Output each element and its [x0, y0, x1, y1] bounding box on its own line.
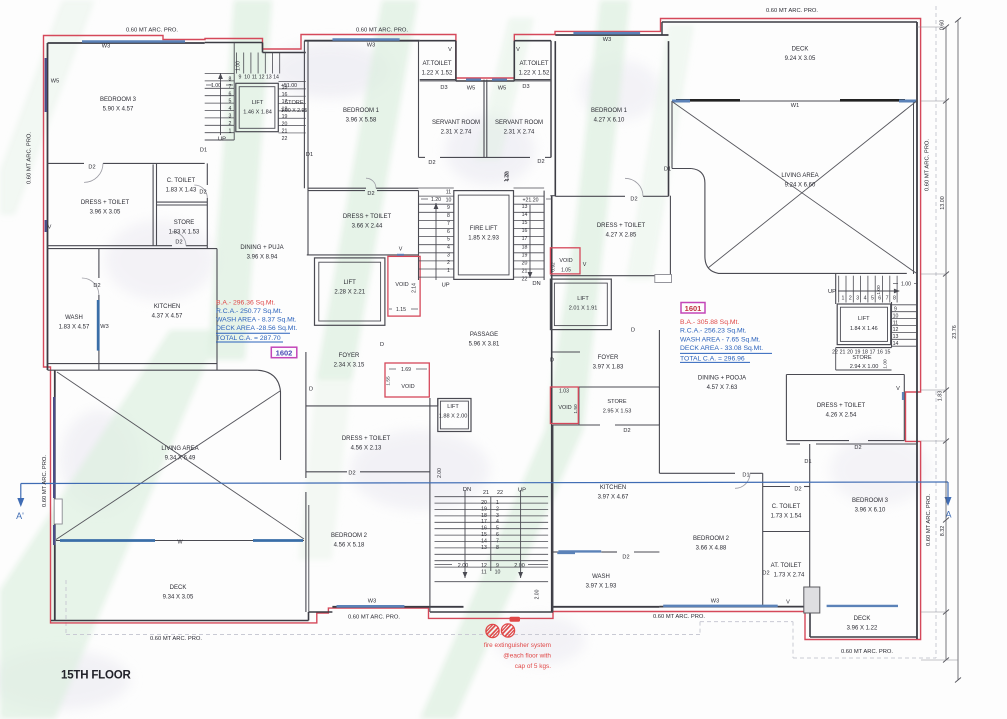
svg-text:19: 19 [481, 506, 487, 512]
svg-text:13: 13 [893, 334, 899, 340]
svg-text:2.00: 2.00 [534, 589, 540, 599]
svg-text:V: V [516, 47, 520, 53]
svg-text:W3: W3 [711, 599, 719, 605]
svg-text:STORE: STORE [852, 355, 871, 361]
svg-text:1.05: 1.05 [561, 268, 571, 274]
svg-text:5.90 X 4.57: 5.90 X 4.57 [103, 107, 134, 113]
svg-text:DN: DN [532, 281, 540, 287]
svg-text:2.00: 2.00 [437, 468, 443, 478]
svg-text:1.73 X 1.54: 1.73 X 1.54 [771, 514, 802, 520]
void 1.69 left bottom [385, 363, 429, 397]
svg-text:UP: UP [218, 137, 226, 143]
svg-text:9.34 X 6.49: 9.34 X 6.49 [165, 456, 196, 462]
svg-text:23.76: 23.76 [952, 325, 958, 339]
svg-text:6: 6 [447, 229, 450, 235]
svg-text:13: 13 [481, 545, 487, 551]
fire lift [454, 191, 514, 280]
svg-text:2.14: 2.14 [412, 283, 418, 293]
svg-text:0.60 MT ARC. PRO.: 0.60 MT ARC. PRO. [27, 132, 33, 184]
svg-text:21: 21 [522, 268, 528, 274]
svg-text:@each floor with: @each floor with [503, 653, 551, 660]
svg-text:4.56 X 2.13: 4.56 X 2.13 [351, 446, 382, 452]
svg-text:0.60 MT ARC. PRO.: 0.60 MT ARC. PRO. [126, 28, 178, 34]
svg-text:D3: D3 [522, 84, 529, 90]
svg-text:TOTAL C.A. = 296.96: TOTAL C.A. = 296.96 [680, 355, 745, 362]
svg-text:STORE: STORE [284, 100, 303, 106]
svg-text:SERVANT ROOM: SERVANT ROOM [432, 120, 480, 126]
door swing arcs [84, 163, 103, 182]
svg-text:15: 15 [481, 532, 487, 538]
svg-text:1.69: 1.69 [401, 367, 411, 373]
svg-text:2.34 X 3.15: 2.34 X 3.15 [334, 363, 365, 369]
svg-text:W3: W3 [603, 37, 611, 43]
svg-text:D: D [380, 342, 384, 348]
svg-text:19: 19 [282, 114, 288, 120]
svg-text:4.27 X 6.10: 4.27 X 6.10 [594, 118, 625, 124]
svg-text:21: 21 [840, 350, 846, 356]
svg-text:10: 10 [244, 75, 250, 81]
svg-text:17: 17 [522, 236, 528, 242]
svg-text:D2: D2 [622, 555, 629, 561]
svg-text:D2: D2 [175, 240, 182, 246]
svg-text:4.37 X 4.57: 4.37 X 4.57 [152, 314, 183, 320]
exterior walls left unit [48, 42, 205, 44]
svg-text:TOTAL C.A. = 287.70: TOTAL C.A. = 287.70 [216, 335, 281, 342]
stair top-left treads [205, 73, 235, 75]
svg-text:0.60 MT ARC. PRO.: 0.60 MT ARC. PRO. [926, 494, 932, 546]
lift 2.28x2.21 left [315, 258, 385, 325]
svg-text:1.88 X 2.00: 1.88 X 2.00 [439, 414, 468, 420]
svg-text:W3: W3 [367, 43, 375, 49]
svg-text:LIFT: LIFT [577, 296, 589, 302]
svg-text:8.32: 8.32 [940, 526, 946, 537]
svg-text:22: 22 [497, 490, 503, 496]
svg-text:3: 3 [229, 114, 232, 120]
svg-text:5: 5 [496, 526, 499, 532]
svg-text:1.50: 1.50 [573, 404, 579, 414]
svg-text:LIVING AREA: LIVING AREA [161, 446, 198, 452]
void 1.03 right bottom [550, 387, 578, 424]
svg-text:1.84 X 1.46: 1.84 X 1.46 [850, 326, 878, 332]
svg-text:9: 9 [894, 307, 897, 313]
svg-text:AT.TOILET: AT.TOILET [519, 61, 548, 67]
svg-text:3: 3 [856, 296, 859, 302]
svg-text:D2: D2 [88, 165, 95, 171]
svg-text:10: 10 [446, 197, 452, 203]
svg-text:R.C.A.- 250.77 Sq.Mt.: R.C.A.- 250.77 Sq.Mt. [216, 308, 283, 315]
svg-text:11: 11 [481, 570, 486, 576]
svg-text:DECK: DECK [792, 47, 809, 53]
svg-text:UP: UP [518, 488, 526, 494]
svg-text:LIVING AREA: LIVING AREA [781, 173, 818, 179]
svg-text:AT.TOILET: AT.TOILET [422, 61, 451, 67]
svg-text:9.24 X 6.60: 9.24 X 6.60 [785, 183, 816, 189]
svg-text:BEDROOM 3: BEDROOM 3 [852, 498, 889, 504]
svg-text:3.97 X 1.83: 3.97 X 1.83 [593, 365, 624, 371]
svg-text:3.66 X 4.88: 3.66 X 4.88 [696, 546, 727, 552]
svg-text:0.60 MT ARC. PRO.: 0.60 MT ARC. PRO. [348, 615, 400, 621]
svg-text:KITCHEN: KITCHEN [154, 304, 180, 310]
svg-text:1.20: 1.20 [431, 197, 441, 203]
svg-text:20: 20 [522, 260, 528, 266]
svg-text:14: 14 [893, 341, 899, 347]
svg-text:11: 11 [446, 190, 451, 196]
svg-text:2.94 X 1.00: 2.94 X 1.00 [850, 364, 879, 370]
windows (blue) [82, 40, 185, 43]
svg-text:5: 5 [447, 237, 450, 243]
svg-text:+51.00: +51.00 [281, 83, 297, 89]
svg-text:2.00: 2.00 [458, 563, 469, 569]
svg-text:9: 9 [447, 205, 450, 211]
svg-text:14: 14 [522, 212, 528, 218]
svg-text:13: 13 [266, 75, 272, 81]
svg-text:15TH FLOOR: 15TH FLOOR [61, 670, 131, 682]
svg-text:3: 3 [447, 252, 450, 258]
svg-text:0.60 MT ARC. PRO.: 0.60 MT ARC. PRO. [653, 614, 705, 620]
svg-text:DINING + POOJA: DINING + POOJA [698, 376, 746, 382]
watermark band V3 [475, 18, 534, 160]
svg-text:WASH: WASH [65, 315, 83, 321]
svg-text:W5: W5 [467, 86, 475, 92]
svg-text:1.46 X 1.84: 1.46 X 1.84 [243, 110, 272, 116]
svg-text:W5: W5 [51, 79, 59, 85]
svg-text:20: 20 [481, 500, 487, 506]
svg-text:8: 8 [496, 545, 499, 551]
svg-text:4.57 X 7.63: 4.57 X 7.63 [707, 385, 738, 391]
svg-text:0.60 MT ARC. PRO.: 0.60 MT ARC. PRO. [42, 455, 48, 507]
svg-text:1.03: 1.03 [559, 389, 569, 395]
svg-text:16: 16 [282, 92, 288, 98]
svg-text:15: 15 [522, 220, 528, 226]
svg-text:1: 1 [447, 268, 450, 274]
red architectural projection boundary (both units) [44, 19, 921, 640]
svg-text:D2: D2 [794, 487, 801, 493]
svg-text:FOYER: FOYER [339, 353, 360, 359]
svg-text:1.83: 1.83 [938, 391, 944, 402]
svg-text:22: 22 [522, 276, 528, 282]
watermark band V1 [0, 0, 694, 719]
svg-text:4.27 X 2.85: 4.27 X 2.85 [606, 233, 637, 239]
svg-text:fire extinguisher system: fire extinguisher system [484, 642, 551, 649]
svg-text:18: 18 [522, 244, 528, 250]
svg-text:1.00: 1.00 [236, 61, 242, 71]
svg-text:1.00 X 2.95: 1.00 X 2.95 [281, 108, 308, 114]
unit number 1602 [271, 347, 297, 358]
svg-text:D1: D1 [742, 473, 749, 479]
svg-text:W1: W1 [791, 103, 799, 109]
svg-text:WASH AREA - 7.65 Sq.Mt.: WASH AREA - 7.65 Sq.Mt. [680, 336, 761, 343]
svg-text:W3: W3 [368, 599, 376, 605]
svg-text:3.96 X 3.05: 3.96 X 3.05 [90, 210, 121, 216]
svg-text:BEDROOM 2: BEDROOM 2 [331, 533, 368, 539]
svg-text:D: D [631, 328, 635, 334]
svg-text:V: V [786, 600, 790, 606]
svg-text:D3: D3 [440, 85, 447, 91]
svg-text:1.00: 1.00 [901, 282, 911, 288]
void 2.14 left [388, 256, 420, 316]
svg-text:0.60 MT ARC. PRO.: 0.60 MT ARC. PRO. [925, 139, 931, 191]
svg-text:6: 6 [878, 296, 881, 302]
svg-text:4: 4 [447, 244, 450, 250]
svg-text:0.60 MT ARC. PRO.: 0.60 MT ARC. PRO. [841, 649, 893, 655]
svg-text:STORE: STORE [607, 399, 626, 405]
svg-text:VOID: VOID [401, 384, 414, 390]
svg-text:0.60: 0.60 [940, 20, 946, 31]
svg-text:10: 10 [495, 570, 501, 576]
svg-text:D2: D2 [630, 197, 637, 203]
svg-text:7: 7 [447, 221, 450, 227]
svg-text:LIFT: LIFT [252, 100, 264, 106]
svg-text:DECK AREA - 33.08 Sq.Mt.: DECK AREA - 33.08 Sq.Mt. [680, 345, 763, 352]
svg-text:VOID: VOID [395, 282, 408, 288]
living area left X [57, 372, 304, 539]
svg-text:21: 21 [282, 129, 288, 135]
watermark band V5 [626, 25, 694, 280]
svg-text:DRESS + TOILET: DRESS + TOILET [343, 214, 392, 220]
svg-text:BEDROOM 3: BEDROOM 3 [100, 97, 137, 103]
svg-text:SERVANT ROOM: SERVANT ROOM [495, 120, 543, 126]
svg-text:4: 4 [864, 296, 867, 302]
svg-text:D2: D2 [537, 159, 544, 165]
lift 1.88x2.00 left lower [438, 399, 471, 432]
svg-text:2.28 X 2.21: 2.28 X 2.21 [334, 290, 365, 296]
svg-text:DRESS + TOILET: DRESS + TOILET [342, 436, 391, 442]
svg-text:17: 17 [481, 519, 487, 525]
lift 2.01x1.91 right [550, 279, 611, 330]
svg-text:8: 8 [893, 296, 896, 302]
svg-text:4.56 X 5.18: 4.56 X 5.18 [334, 543, 365, 549]
svg-text:3.96 X 6.10: 3.96 X 6.10 [855, 508, 886, 514]
svg-text:0.60 MT ARC. PRO.: 0.60 MT ARC. PRO. [766, 8, 818, 14]
svg-text:5: 5 [871, 296, 874, 302]
svg-text:22: 22 [832, 350, 838, 356]
svg-text:7: 7 [496, 538, 499, 544]
svg-text:1.15: 1.15 [396, 307, 406, 313]
svg-text:1.22 X 1.52: 1.22 X 1.52 [422, 71, 453, 77]
svg-text:WASH: WASH [592, 574, 610, 580]
svg-text:16: 16 [481, 526, 487, 532]
svg-text:3.66 X 2.44: 3.66 X 2.44 [352, 224, 383, 230]
svg-text:1.83 X 1.53: 1.83 X 1.53 [169, 230, 200, 236]
svg-text:LIFT: LIFT [447, 404, 459, 410]
svg-text:D1: D1 [804, 459, 811, 465]
svg-text:C. TOILET: C. TOILET [772, 504, 801, 510]
stair right-wing [838, 276, 840, 303]
svg-text:1.83 X 4.57: 1.83 X 4.57 [59, 325, 90, 331]
section line A-A' [21, 482, 948, 484]
svg-text:3.97 X 4.67: 3.97 X 4.67 [598, 495, 629, 501]
exterior walls right unit [554, 41, 556, 196]
svg-text:3: 3 [496, 513, 499, 519]
svg-text:D2: D2 [199, 190, 206, 196]
svg-text:1.85 X 2.93: 1.85 X 2.93 [468, 236, 499, 242]
fire extinguisher symbol and note [486, 624, 499, 637]
svg-text:W: W [177, 540, 183, 546]
svg-text:3.96 X 5.58: 3.96 X 5.58 [346, 118, 377, 124]
svg-text:0.60 MT ARC. PRO.: 0.60 MT ARC. PRO. [356, 28, 408, 34]
svg-text:1.00: 1.00 [876, 285, 882, 295]
svg-text:D: D [550, 358, 554, 364]
svg-text:8: 8 [229, 77, 232, 83]
svg-text:1: 1 [496, 500, 499, 506]
svg-text:V: V [48, 225, 52, 231]
svg-text:15: 15 [885, 350, 891, 356]
svg-text:D2: D2 [762, 571, 769, 577]
svg-text:6: 6 [229, 91, 232, 97]
svg-text:1: 1 [229, 128, 232, 134]
svg-text:5: 5 [229, 99, 232, 105]
svg-text:FOYER: FOYER [598, 355, 619, 361]
svg-text:D1: D1 [200, 148, 207, 154]
svg-text:V: V [896, 386, 900, 392]
svg-text:2: 2 [496, 506, 499, 512]
svg-text:1.00: 1.00 [883, 359, 889, 369]
svg-text:22: 22 [282, 136, 288, 142]
svg-text:13.00: 13.00 [940, 196, 946, 210]
svg-text:0.60 MT ARC. PRO.: 0.60 MT ARC. PRO. [150, 636, 202, 642]
svg-text:0.92: 0.92 [551, 262, 557, 272]
svg-text:+21.20: +21.20 [522, 198, 538, 204]
svg-text:D2: D2 [93, 283, 100, 289]
svg-text:10: 10 [893, 313, 899, 319]
svg-text:W5: W5 [498, 86, 506, 92]
svg-text:2: 2 [849, 296, 852, 302]
svg-text:BEDROOM 1: BEDROOM 1 [343, 108, 380, 114]
svg-text:V: V [583, 262, 587, 268]
svg-text:B.A.- 305.88 Sq.Mt.: B.A.- 305.88 Sq.Mt. [680, 319, 739, 326]
svg-text:BEDROOM 1: BEDROOM 1 [591, 108, 628, 114]
svg-text:1.73 X 2.74: 1.73 X 2.74 [774, 573, 805, 579]
stair center upper treads [419, 187, 454, 189]
svg-text:14: 14 [481, 538, 487, 544]
svg-text:KITCHEN: KITCHEN [600, 485, 626, 491]
svg-text:9: 9 [239, 75, 242, 81]
svg-text:DRESS + TOILET: DRESS + TOILET [817, 403, 866, 409]
lift 1.46x1.84 top-left [236, 83, 278, 131]
svg-text:9.34 X 3.05: 9.34 X 3.05 [163, 595, 194, 601]
svg-text:D1: D1 [664, 167, 671, 173]
svg-text:DECK: DECK [854, 616, 871, 622]
svg-text:DINING + PUJA: DINING + PUJA [240, 245, 283, 251]
svg-text:21: 21 [483, 490, 489, 496]
watermark band V2 [316, 0, 418, 380]
svg-text:LIFT: LIFT [858, 316, 870, 322]
svg-text:2.00: 2.00 [514, 563, 525, 569]
svg-text:1.83 X 1.43: 1.83 X 1.43 [166, 188, 197, 194]
svg-text:2.95 X 1.53: 2.95 X 1.53 [603, 409, 632, 415]
svg-text:UP: UP [442, 283, 450, 289]
svg-text:1602: 1602 [276, 349, 293, 358]
svg-text:1: 1 [842, 296, 845, 302]
svg-text:V: V [448, 47, 452, 53]
svg-text:1.22 X 1.52: 1.22 X 1.52 [519, 71, 550, 77]
svg-text:D2: D2 [428, 160, 435, 166]
interior walls right unit [672, 168, 691, 170]
svg-text:3.97 X 1.93: 3.97 X 1.93 [586, 584, 617, 590]
svg-text:18: 18 [481, 513, 487, 519]
svg-text:2: 2 [229, 121, 232, 127]
svg-text:1.55: 1.55 [386, 376, 392, 386]
interior walls left unit [48, 162, 85, 164]
svg-text:7: 7 [886, 296, 889, 302]
property dashed line [935, 6, 937, 658]
svg-text:8: 8 [447, 213, 450, 219]
svg-text:D2: D2 [623, 428, 630, 434]
svg-text:DN: DN [463, 487, 471, 493]
svg-text:2.31 X 2.74: 2.31 X 2.74 [441, 130, 472, 136]
svg-text:6: 6 [496, 532, 499, 538]
svg-text:AT. TOILET: AT. TOILET [771, 563, 802, 569]
svg-text:3.96 X 1.22: 3.96 X 1.22 [847, 626, 878, 632]
svg-text:1.00: 1.00 [211, 83, 221, 89]
svg-text:4: 4 [496, 519, 499, 525]
unit number 1601 [681, 303, 705, 314]
svg-text:D2: D2 [348, 471, 355, 477]
svg-text:5.96 X 3.81: 5.96 X 3.81 [469, 342, 500, 348]
void 1.05 right [550, 248, 580, 274]
svg-text:UP: UP [828, 289, 836, 295]
svg-text:VOID: VOID [559, 258, 572, 264]
svg-text:16: 16 [877, 350, 883, 356]
svg-text:13: 13 [522, 204, 528, 210]
svg-text:4.26 X 2.54: 4.26 X 2.54 [826, 413, 857, 419]
svg-text:DECK: DECK [170, 585, 187, 591]
svg-text:4: 4 [229, 106, 232, 112]
svg-text:FIRE LIFT: FIRE LIFT [470, 226, 498, 232]
svg-text:DECK AREA -28.56 Sq.Mt.: DECK AREA -28.56 Sq.Mt. [216, 325, 297, 332]
svg-text:DRESS + TOILET: DRESS + TOILET [81, 200, 130, 206]
svg-text:12: 12 [893, 327, 899, 333]
svg-text:BEDROOM 2: BEDROOM 2 [693, 536, 730, 542]
watermark faint top-left streak [0, 0, 95, 215]
svg-text:3.96 X 8.94: 3.96 X 8.94 [247, 255, 278, 261]
svg-text:2: 2 [447, 260, 450, 266]
svg-text:11: 11 [893, 320, 898, 326]
svg-text:D1: D1 [306, 152, 313, 158]
svg-text:D: D [309, 387, 313, 393]
right dimension lines [945, 27, 947, 660]
svg-text:9.24 X 3.05: 9.24 X 3.05 [785, 56, 816, 62]
living area right X [672, 102, 916, 274]
svg-text:B.A.- 296.36 Sq.Mt.: B.A.- 296.36 Sq.Mt. [216, 300, 275, 307]
svg-text:PASSAGE: PASSAGE [470, 332, 498, 338]
svg-text:D2: D2 [854, 445, 861, 451]
svg-text:LIFT: LIFT [344, 280, 357, 286]
svg-text:2.01 X 1.91: 2.01 X 1.91 [569, 306, 598, 312]
svg-text:1.20: 1.20 [504, 172, 510, 182]
watermark band D4 long diagonal [420, 0, 630, 719]
svg-text:W3: W3 [102, 44, 110, 50]
svg-text:14: 14 [273, 75, 279, 81]
svg-text:9: 9 [496, 563, 499, 569]
svg-text:12: 12 [481, 563, 487, 569]
svg-text:STORE: STORE [174, 220, 195, 226]
svg-text:R.C.A.- 256.23 Sq.Mt.: R.C.A.- 256.23 Sq.Mt. [680, 328, 747, 335]
svg-text:11: 11 [252, 75, 257, 81]
svg-text:D2: D2 [367, 191, 374, 197]
svg-text:cap of 5 kgs.: cap of 5 kgs. [515, 663, 551, 670]
svg-text:2.31 X 2.74: 2.31 X 2.74 [504, 130, 535, 136]
watermark band B bottom-left diagonal [0, 330, 220, 719]
svg-text:19: 19 [522, 252, 528, 258]
svg-text:12: 12 [259, 75, 265, 81]
svg-text:W3: W3 [100, 324, 108, 330]
svg-text:16: 16 [522, 228, 528, 234]
svg-text:20: 20 [282, 121, 288, 127]
svg-text:VOID: VOID [558, 405, 571, 411]
svg-text:WASH AREA - 8.37 Sq.Mt.: WASH AREA - 8.37 Sq.Mt. [216, 317, 297, 324]
stair bottom treads [435, 496, 549, 498]
